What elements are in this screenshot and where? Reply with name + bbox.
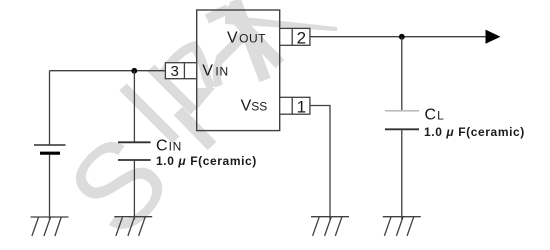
watermark stroke x-swoosh [225, 15, 337, 31]
svg-text:3: 3 [171, 63, 179, 80]
watermark stroke x-steep [235, 0, 265, 80]
node: output junction dot [399, 34, 405, 40]
wire: CIN bottom lead [133, 160, 135, 220]
svg-text:VOUT: VOUT [227, 29, 266, 46]
wire: battery bottom lead [49, 155, 51, 220]
capacitor CL top plate [385, 110, 419, 112]
svg-text:CL: CL [425, 107, 445, 124]
watermark stroke p-bowl-bottom triangle [197, 88, 216, 110]
watermark (diagonal light-gray stamp) [43, 0, 337, 250]
battery BT1 positive plate [34, 144, 66, 146]
ground under pin 1 wire [311, 217, 349, 236]
ground under CL [383, 217, 421, 236]
ground under battery [31, 217, 69, 236]
svg-text:VIN: VIN [202, 63, 229, 80]
capacitor CIN top plate [118, 141, 151, 143]
capacitor CL bottom plate [385, 128, 419, 130]
wire: CIN top lead [133, 71, 135, 143]
battery BT1 negative plate [40, 152, 60, 155]
watermark stroke p-stem [151, 68, 194, 111]
watermark stroke p-bowl [160, 46, 212, 88]
svg-text:1.0 μ F(ceramic): 1.0 μ F(ceramic) [156, 154, 257, 168]
pin 2 box [280, 28, 310, 47]
arrow: output [486, 30, 501, 44]
op-amp U1 regulator body [197, 10, 280, 131]
svg-text:1.0 μ F(ceramic): 1.0 μ F(ceramic) [424, 125, 525, 139]
pin 1 box [280, 97, 310, 116]
wire: output rail from pin 2 [310, 36, 486, 38]
wire: pin 1 to ground [310, 106, 330, 220]
wire: CL top lead [401, 37, 403, 110]
ground under CIN [114, 217, 152, 236]
node: input junction dot [131, 68, 137, 74]
pin 3 box [165, 63, 196, 80]
svg-text:1: 1 [297, 97, 306, 116]
watermark stroke p-descender [178, 111, 212, 146]
svg-text:CIN: CIN [156, 138, 182, 155]
watermark stroke r-cross [219, 28, 251, 60]
watermark stroke r-stem [226, 8, 280, 64]
svg-text:VSS: VSS [241, 98, 268, 115]
watermark stroke r-top [207, 9, 228, 19]
watermark stroke i-stem [123, 0, 280, 146]
wire: battery top lead [49, 71, 51, 145]
svg-text:2: 2 [297, 28, 306, 47]
capacitor CIN bottom plate [118, 159, 151, 161]
wire: input rail from battery to pin 3 [50, 70, 166, 72]
wire: CL bottom lead [401, 129, 403, 219]
watermark stroke r-cross tail [217, 59, 220, 86]
